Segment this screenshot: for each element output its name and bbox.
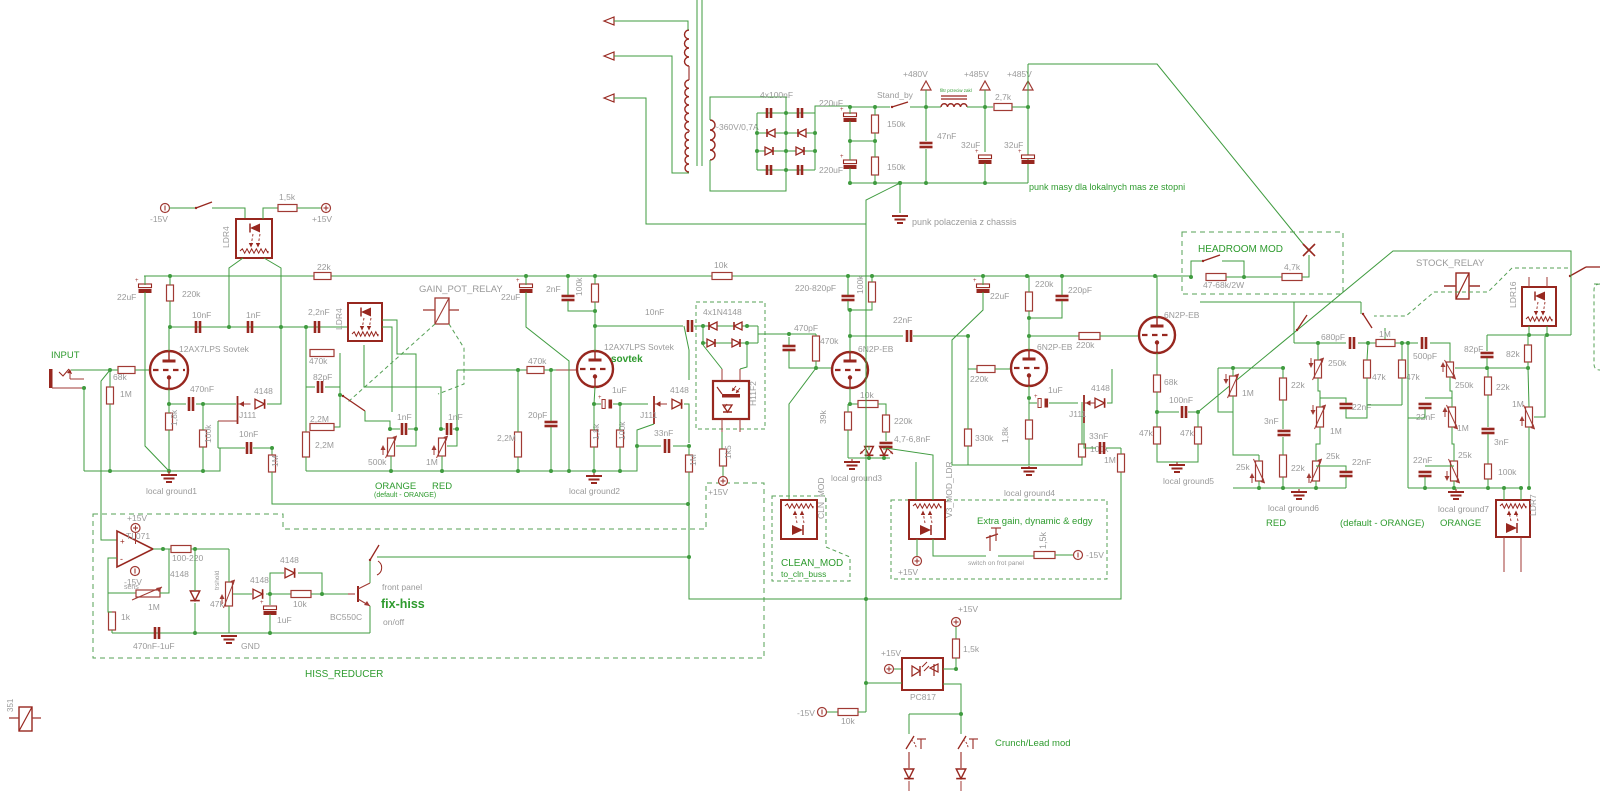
junction [959,712,963,716]
100k T1 gnd [202,447,204,471]
svg-text:68k: 68k [1164,377,1178,387]
pot 25k red left [1256,461,1263,481]
junction [1189,275,1193,279]
supply -15V opamp [131,567,140,576]
ldr16 pins bot2 [1546,326,1548,335]
resistor 330k [965,429,972,446]
opto CLN_MOD [781,500,817,539]
svg-text:GND: GND [241,641,260,651]
junction [787,332,791,336]
resistor 2,2M chain [310,424,334,431]
22nF or a wires [1407,398,1409,403]
opto PC817 led [912,666,920,676]
red stack top [1294,342,1346,344]
resistor 47k stack b [1399,360,1406,378]
20pF gnd [550,427,552,471]
bridge output wire [815,106,850,113]
capacitor 100nF T5 [1181,406,1184,418]
svg-text:+480V: +480V [903,69,928,79]
junction [593,324,597,328]
svg-text:+: + [1034,394,1038,400]
1M input gnd [109,404,111,471]
capacitor 1nF pot1 [401,423,404,435]
opto LDR16 [1522,287,1556,326]
junction [201,469,205,473]
220k T4 top [1028,276,1030,292]
pot sens 1M [136,590,160,597]
junction [193,631,197,635]
resistor 10k mod [858,401,878,408]
resistor 22k or [1485,377,1492,395]
switch fix-hiss [370,545,379,560]
pot 25k red [1313,461,1320,481]
1,5k top [955,627,957,639]
wire 82pF stubs [306,386,315,388]
wire +485V a [984,90,986,107]
choke core [941,95,967,97]
wire 150k mid [874,133,876,157]
junction [954,667,958,671]
ldr7 pins [1503,488,1505,500]
resistor 47k stack a [1364,360,1371,378]
svg-text:12AX7LPS Sovtek: 12AX7LPS Sovtek [604,342,675,352]
junction [1526,366,1530,370]
junction [167,469,171,473]
10k pc817 out [858,711,866,713]
diode 1N4148 b [734,322,742,330]
bridge right rail [814,106,816,170]
J111 src down2 [217,421,219,448]
svg-text:47k: 47k [1372,372,1386,382]
junction [268,631,272,635]
25k redleft gnd [1258,481,1260,488]
junction [1400,341,1404,345]
100k T4 gnd [1029,457,1082,465]
diode bridge D3 [765,147,773,155]
svg-text:470k: 470k [528,356,547,366]
junction [1027,396,1031,400]
resistor 100k T4 [1079,444,1086,457]
1M orright top [1528,368,1529,407]
250k red top [1317,343,1319,360]
wire b+ top run [1028,64,1308,250]
junction [1502,486,1506,490]
local ground5 symbol [1176,462,1178,465]
junction [848,402,852,406]
svg-text:100k: 100k [855,275,865,294]
T3 out line [850,335,903,337]
junction [161,547,165,551]
th top [228,549,230,582]
junction [268,592,272,596]
junction [439,427,443,431]
1k top [108,593,112,612]
junction [304,325,308,329]
svg-text:500k: 500k [368,457,387,467]
relay dashed left [348,324,435,402]
capacitor 22nF or a [1419,403,1432,406]
junction [873,105,877,109]
hiss gnd rail [112,632,370,634]
headroom sw wire2 [1222,261,1244,277]
tube 12AX7LPS V1a [150,351,188,389]
4148 fb wire2 [194,603,196,633]
th gnd [228,606,230,633]
opamp v+ stub [135,532,137,544]
arr 25k red [1308,475,1310,483]
resistor 68k [118,367,135,374]
resistor 100k T1 [200,430,207,447]
wire +485V riser [1027,64,1029,183]
junction [1527,486,1531,490]
ground rail 1 [84,448,220,471]
svg-text:220uF: 220uF [819,165,843,175]
svg-text:22nF: 22nF [1352,402,1371,412]
resistor 220k T4grid [977,366,995,373]
arrow th [221,596,223,604]
junction [1025,274,1029,278]
led wires [868,446,870,450]
red stack top3 [1395,342,1418,344]
resistor 10k pc817 [838,709,858,716]
470k bot [815,361,817,368]
pot 1M red [1317,407,1324,427]
wire 220k to plate [169,301,171,327]
stock relay dashed box [1594,283,1600,285]
headroom sw wire [1191,261,1203,277]
junction [593,274,597,278]
resistor 10k rail [712,273,732,280]
T3 cathode [849,388,851,404]
junction [1486,486,1490,490]
resistor 1M stack [1376,340,1395,347]
resistor 2,7k [994,104,1012,111]
svg-text:local ground7: local ground7 [1438,504,1489,514]
junction [1545,333,1549,337]
bc collector [369,560,371,583]
capacitor 100nF a [766,108,769,118]
4148b out [684,404,689,443]
svg-text:1M: 1M [688,454,698,466]
svg-text:-15V: -15V [1086,550,1104,560]
local ground3 symbol [851,459,853,462]
relay STOCK [1456,273,1469,299]
svg-text:J111: J111 [640,410,657,420]
capacitor 1uF T2 [602,400,605,409]
ldr7 pins dn [1503,537,1505,572]
junction [873,139,877,143]
svg-text:220k: 220k [894,416,913,426]
svg-text:PC817: PC817 [910,692,936,702]
diode 4148 mid [253,589,263,599]
transistor J111 first [237,396,239,424]
1,8k T4 top [1028,398,1030,420]
capacitor 10nF T1b [246,442,249,454]
wire 22uF3 down [952,292,983,465]
svg-text:+15V: +15V [127,513,147,523]
diode 4148 T1 [255,399,265,409]
junction [864,597,868,601]
svg-text:-: - [120,554,123,564]
capacitor 220uF bottom [844,160,857,164]
junction [1519,486,1523,490]
red pot gnd [1315,481,1317,488]
10k mod wire [850,403,858,405]
svg-text:J111: J111 [1069,409,1086,419]
220k T4 bot [1028,311,1030,318]
capacitor 1uF T4 [1038,399,1041,408]
svg-text:H11F2: H11F2 [748,381,758,406]
T1 cath branch [169,403,186,405]
resistor 100k or [1485,464,1492,479]
resistor 1k [109,612,116,630]
22nF or b w2 [1424,477,1426,488]
T1 plate wire [168,327,170,351]
junction [898,181,902,185]
10k mod out [878,404,886,415]
svg-text:470pF: 470pF [794,323,818,333]
orange mid [1450,377,1452,407]
ldr16 pins top [1528,277,1530,287]
svg-text:4148: 4148 [170,569,189,579]
resistor 220k T1 [167,285,174,301]
svg-text:1uF: 1uF [1048,385,1063,395]
22nF red a wires2 [1346,405,1402,418]
mid node wire [266,593,291,595]
svg-text:LDR4: LDR4 [334,308,344,330]
22nF or a wires2 [1425,397,1452,399]
svg-text:22uF: 22uF [501,292,520,302]
wire ldr pin down L [229,258,243,327]
pot 25k orange [1451,461,1458,481]
junction [108,368,112,372]
capacitor 20pF [545,421,558,424]
v3 pin down [916,539,918,556]
1M orright down [1528,427,1530,488]
47k a top [1156,412,1158,427]
svg-text:LDR7: LDR7 [1528,494,1538,516]
arrow 1M ch [433,447,435,455]
junction [618,469,622,473]
junction [82,386,86,390]
svg-text:STOCK_RELAY: STOCK_RELAY [1416,258,1485,269]
h11f2 top pins [703,345,722,369]
junction [1366,341,1370,345]
red left col2 [1282,400,1284,429]
supply +15V a [322,204,331,213]
stock sw down [1570,262,1572,335]
cap2 wires2 [453,428,457,430]
pot2 wiper drop [447,370,457,446]
junction [1281,486,1285,490]
h11f2 top pin2 [740,345,747,369]
svg-text:INPUT: INPUT [51,350,80,361]
wire cap mid to 150k [850,140,875,142]
svg-text:Stand_by: Stand_by [877,90,914,100]
plate line T1 [170,326,348,328]
2,2M top [517,370,519,432]
ldr7 pins dn2 [1520,537,1522,572]
junction [592,402,596,406]
ldr7 pins2 [1520,488,1522,500]
220k to grid [995,368,1011,370]
switch channel 1 [343,396,365,411]
to cln buss [689,472,1121,599]
svg-text:1nF: 1nF [448,412,463,422]
resistor 1M T4 [1118,454,1125,472]
diode 4148 T4 [1095,398,1105,408]
junction [338,393,342,397]
svg-text:+: + [135,278,139,284]
wire 47nF gnd [925,149,927,183]
svg-text:front panel: front panel [382,582,422,592]
clipper row1 [703,325,758,327]
resistor 47k T5b [1195,427,1202,444]
supply +485V a [980,81,990,90]
junction [1316,341,1320,345]
1M redleft top [1232,368,1234,376]
junction [440,469,444,473]
20pF top [550,370,552,421]
crunch drop1 [908,714,910,734]
100k to plate [594,302,596,326]
4148 fb wire [194,549,196,591]
2nF down [568,301,595,311]
svg-text:to_cln_buss: to_cln_buss [781,569,826,579]
chassis drop [865,224,867,712]
red input wire [1218,367,1283,369]
arrow 500k [382,447,384,455]
resistor 1,5k pc817 [953,639,960,658]
junction [1257,486,1261,490]
svg-text:Crunch/Lead mod: Crunch/Lead mod [995,738,1071,749]
red gnd rail [1233,487,1346,489]
opto LDR7 [1496,500,1530,537]
1,8k T2 wire [593,404,595,430]
resistor 150k bottom [872,157,879,175]
svg-text:(default - ORANGE): (default - ORANGE) [374,492,436,499]
47k stack a [1367,343,1368,360]
far right dashed box [1594,284,1600,370]
1M T1 to bus [272,472,688,504]
junction [1281,366,1285,370]
wire 150k gnd [874,175,876,183]
extra sw wire [998,555,1034,557]
1,5k bot [943,658,956,669]
svg-text:10k: 10k [293,599,307,609]
svg-text:local ground3: local ground3 [831,473,882,483]
T5 cathode [1156,353,1158,375]
opamp -in [108,558,117,593]
svg-text:fix-hiss: fix-hiss [381,597,425,611]
svg-text:47nF: 47nF [937,131,956,141]
svg-text:1M: 1M [1330,426,1342,436]
svg-text:220-820pF: 220-820pF [795,283,836,293]
svg-text:filtr przeciw zakl: filtr przeciw zakl [940,88,972,93]
grid wire T1b [135,369,151,371]
svg-text:+15V: +15V [881,648,901,658]
mains terminal arrow 2 [604,52,614,60]
pot 1M red left [1230,376,1237,396]
pc817 cathode [866,682,902,684]
100k T3 top [871,276,873,282]
capacitor 2nF [562,295,575,298]
transformer secondary winding [710,120,715,160]
svg-text:local ground4: local ground4 [1004,488,1055,498]
capacitor 82pF chain [317,381,320,393]
1uF T2 wire [613,403,648,405]
junction [882,456,886,460]
wire 82pF stubs2 [325,386,340,388]
supply +485V b [1023,81,1033,90]
capacitor 22uF third [977,284,990,288]
capacitor 22nF red b [1340,471,1353,474]
opto PC817 box [902,658,943,690]
svg-text:2,2M: 2,2M [497,433,516,443]
resistor 1,5k [278,205,297,212]
junction [1452,486,1456,490]
clipper left vert [702,326,704,343]
470pF down [788,337,790,345]
capacitor 33nF T2 [664,439,667,453]
svg-text:4148: 4148 [254,386,273,396]
svg-text:4x1N4148: 4x1N4148 [703,307,742,317]
ldr16 pins top2 [1546,277,1548,287]
svg-text:470nF: 470nF [190,384,214,394]
10k to base [311,593,355,595]
clipper row2 [703,342,758,344]
svg-text:351: 351 [6,698,15,712]
pc817 out [943,684,961,714]
junction [983,105,987,109]
svg-text:10nF: 10nF [192,310,211,320]
svg-text:+15V: +15V [958,604,978,614]
resistor 1k5 H11F2 [720,449,727,466]
svg-text:2,2nF: 2,2nF [308,307,330,317]
arr 25k redleft [1251,475,1253,483]
svg-text:10k: 10k [841,716,855,726]
supply -15V switch [161,204,170,213]
capacitor 470pF [783,345,796,348]
4,7k out [1302,255,1309,277]
capacitor 22uF first [139,284,152,288]
capacitor 10nF T2 [687,320,690,332]
wire chassis stem [899,183,901,213]
svg-text:22uF: 22uF [117,292,136,302]
68k down [1156,392,1158,412]
47k stack a dn [1366,378,1368,405]
junction [549,469,553,473]
crunch bus [909,713,961,715]
resistor 22k red b [1280,455,1287,477]
junction [983,181,987,185]
capacitor 47nF [920,142,933,145]
220k to T5grid [1100,335,1139,337]
wire 22uF2 [525,276,527,285]
diode 1N4148 a [709,322,717,330]
resistor 47k T5a [1154,427,1161,444]
fix-hiss out [377,556,689,558]
red left col3 [1282,437,1284,455]
resistor 10k hiss [291,591,311,598]
svg-text:12AX7LPS Sovtek: 12AX7LPS Sovtek [179,344,250,354]
3nF or down [1487,434,1489,464]
capacitor 22nF or b [1419,471,1432,474]
svg-text:+: + [260,600,264,606]
chain left vert [305,327,307,432]
svg-text:1uF: 1uF [277,615,292,625]
svg-text:470nF-1uF: 470nF-1uF [133,641,175,651]
